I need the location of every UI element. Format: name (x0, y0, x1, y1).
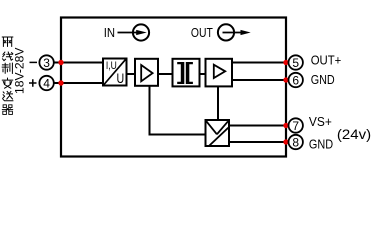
terminal 7 (289, 118, 303, 132)
block T1 isolation transformer (173, 59, 200, 87)
wire IN arrow lead (118, 32, 138, 34)
junction dot terminal8 (283, 139, 288, 144)
wire terminal4 to U1 (54, 82, 103, 84)
block DC/DC converter (206, 120, 230, 146)
terminal 8 (289, 135, 303, 149)
svg-text:U: U (117, 70, 125, 86)
hanzi zhi (system) (2, 63, 12, 73)
T1 secondary winding (186, 62, 193, 84)
svg-text:(24v): (24v) (337, 126, 371, 142)
svg-text:18V-28V: 18V-28V (12, 48, 26, 95)
hanzi song (send) (3, 92, 13, 101)
hanzi xian (wire) (3, 52, 13, 61)
junction dot terminal3 (58, 60, 63, 65)
svg-text:OUT: OUT (191, 26, 213, 40)
svg-text:GND: GND (311, 72, 335, 87)
DC/DC parallel diagonal (209, 128, 228, 146)
wire OUT arrow lead (223, 32, 243, 34)
hanzi liang (two) (2, 37, 13, 46)
wire U1 to A1 (127, 73, 136, 75)
terminal 5 (289, 55, 303, 69)
polarity plus sign (29, 79, 37, 86)
block A2 output amplifier (206, 59, 233, 87)
triangle of A2 (214, 65, 225, 78)
diagonal of U1 (104, 59, 126, 84)
hanzi qi (device) (2, 105, 12, 115)
arrowhead OUT (241, 30, 251, 35)
svg-text:5: 5 (292, 56, 299, 70)
wire DC/DC to terminal7 (229, 125, 289, 127)
svg-text:VS+: VS+ (309, 114, 332, 129)
junction dot terminal5 (283, 60, 288, 65)
node OUT circle (218, 24, 234, 40)
wire A2 to terminal5 (232, 62, 289, 64)
wire A1 to T1 (158, 73, 173, 75)
wire terminal3 to U1 (54, 62, 103, 64)
DC/DC line from top-left corner (206, 121, 217, 134)
svg-text:I,U: I,U (106, 60, 117, 72)
arrowhead IN (136, 30, 147, 35)
polarity minus sign (30, 61, 38, 63)
wire A2 down to DC/DC (217, 86, 219, 120)
node IN circle (133, 24, 149, 40)
enclosure outer box (61, 18, 286, 157)
svg-text:3: 3 (43, 56, 50, 70)
block A1 amplifier (135, 59, 158, 86)
wire A1 down to DC/DC (150, 86, 206, 135)
wire DC/DC to terminal8 (229, 141, 289, 143)
svg-text:8: 8 (292, 135, 299, 149)
svg-text:6: 6 (292, 73, 299, 87)
svg-text:4: 4 (43, 76, 50, 90)
block U1 input converter I,U/U (103, 59, 127, 86)
hanzi bian (transmit/change) (2, 78, 12, 88)
terminal 3 (39, 55, 53, 69)
junction dot terminal7 (283, 123, 288, 128)
svg-text:OUT+: OUT+ (311, 53, 342, 68)
wire A2 to terminal6 (232, 79, 289, 81)
junction dot terminal6 (283, 77, 288, 82)
terminal 6 (289, 73, 303, 87)
wire T1 to A2 (200, 73, 206, 75)
svg-text:GND: GND (309, 137, 333, 152)
triangle of A1 (141, 65, 152, 81)
T1 primary winding (177, 62, 184, 84)
terminal 4 (39, 76, 53, 90)
junction dot terminal4 (58, 80, 63, 85)
svg-text:7: 7 (292, 119, 299, 133)
svg-text:IN: IN (104, 26, 115, 40)
DC/DC diagonal main (217, 121, 228, 134)
